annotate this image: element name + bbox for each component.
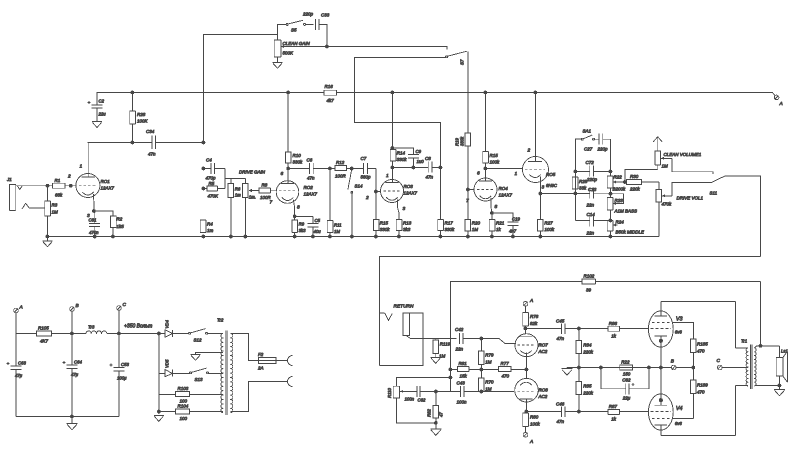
resistor R13 3k3 — [396, 220, 402, 231]
wire drive channel to S7 lower — [355, 58, 446, 168]
ground (R119) — [435, 354, 437, 358]
svg-text:220k: 220k — [582, 391, 594, 396]
resistor R103 100 — [159, 394, 176, 396]
capacitor C14 22n — [576, 220, 590, 222]
jack RETURN frame — [380, 313, 424, 366]
svg-text:C53: C53 — [121, 362, 129, 367]
resistor R20 1M — [467, 190, 469, 220]
capacitor C53 100u — [118, 334, 120, 368]
svg-text:22n: 22n — [455, 347, 464, 352]
mains pin 2 — [288, 377, 293, 387]
node dot rectifier — [157, 332, 160, 335]
wire C42 to RO7 grid — [463, 339, 516, 344]
svg-text:R9: R9 — [299, 222, 305, 227]
svg-text:47n: 47n — [557, 336, 565, 341]
svg-text:2: 2 — [527, 148, 531, 154]
node dots ground rail stage1 — [93, 235, 96, 238]
wire C34 node up to clean gain — [204, 35, 278, 143]
transformer Tr1 primary — [735, 347, 748, 349]
svg-text:R16: R16 — [325, 84, 334, 89]
svg-text:100k: 100k — [530, 422, 541, 427]
svg-text:330k: 330k — [397, 157, 408, 162]
tube RO2 12AX7 — [276, 181, 299, 204]
svg-text:220p: 220p — [586, 177, 598, 182]
svg-text:C46: C46 — [556, 402, 565, 407]
svg-text:4k7: 4k7 — [327, 98, 335, 103]
capacitor C33 220p — [314, 19, 316, 30]
svg-text:100R: 100R — [335, 174, 347, 179]
switch S5 — [278, 24, 286, 34]
svg-text:R30: R30 — [630, 174, 639, 179]
svg-text:V3: V3 — [676, 317, 683, 323]
svg-text:7: 7 — [270, 200, 273, 206]
tail line dots — [449, 368, 452, 371]
resistor R16 (rail series) — [324, 90, 337, 95]
svg-text:330k: 330k — [380, 227, 391, 232]
svg-text:AC2: AC2 — [538, 394, 548, 399]
svg-text:100k: 100k — [490, 160, 501, 165]
svg-text:B: B — [671, 359, 675, 365]
tube RO4 12AX7 — [474, 178, 497, 201]
svg-text:A1M BASS: A1M BASS — [614, 209, 638, 214]
svg-text:VD5: VD5 — [165, 359, 170, 368]
svg-text:1k: 1k — [611, 334, 617, 339]
svg-text:R20: R20 — [472, 221, 481, 226]
pot CLEAN VOLUME1 1M — [655, 151, 661, 165]
wire S11 out — [725, 176, 761, 257]
svg-text:Tr2: Tr2 — [217, 318, 224, 323]
svg-text:R119: R119 — [440, 342, 451, 347]
svg-text:220p: 220p — [302, 12, 314, 17]
node dot C8 out — [439, 166, 442, 169]
resistor R21 1k — [491, 212, 494, 215]
svg-text:R84: R84 — [583, 343, 592, 348]
svg-text:22n: 22n — [586, 203, 595, 208]
svg-text:1m.: 1m. — [249, 195, 256, 200]
svg-text:S11: S11 — [710, 191, 718, 196]
svg-text:560p: 560p — [361, 175, 372, 180]
wire drive wiper to S11 — [665, 183, 711, 196]
svg-text:R12: R12 — [336, 160, 345, 165]
svg-text:12AX7: 12AX7 — [499, 193, 513, 198]
svg-text:3: 3 — [542, 185, 545, 191]
svg-text:6: 6 — [281, 171, 284, 177]
ground (cathode bus) — [566, 367, 568, 370]
resistor R28 — [132, 93, 134, 112]
svg-text:R24: R24 — [616, 220, 625, 225]
capacitor C43 100n — [451, 391, 461, 393]
svg-text:2: 2 — [365, 195, 369, 201]
svg-text:100k: 100k — [544, 227, 555, 232]
svg-text:150: 150 — [623, 372, 631, 377]
svg-text:22u: 22u — [98, 112, 107, 117]
svg-text:C5: C5 — [315, 218, 321, 223]
switch S7 — [446, 56, 448, 58]
pot DRIVE VOL1 470k — [656, 190, 662, 203]
svg-text:C: C — [123, 302, 127, 308]
svg-text:RO8: RO8 — [539, 388, 549, 393]
node dot RO8 plate — [525, 410, 528, 413]
svg-text:R14: R14 — [397, 151, 406, 156]
resistor R80 100k — [525, 412, 527, 413]
svg-text:4K7: 4K7 — [40, 339, 49, 344]
resistor R15 330k — [374, 190, 377, 193]
switch S13 — [190, 372, 192, 374]
svg-text:6v6: 6v6 — [675, 421, 683, 426]
svg-text:100μ: 100μ — [117, 376, 127, 381]
capacitor C5 40u — [312, 216, 314, 223]
wire V4 screen — [672, 418, 693, 420]
svg-text:47n: 47n — [426, 175, 434, 180]
capacitor C63 47u — [15, 334, 17, 366]
svg-text:470: 470 — [697, 349, 705, 354]
pot R110 presence — [393, 386, 399, 398]
node dot R28/plate line — [131, 141, 134, 144]
svg-text:12AX7: 12AX7 — [304, 192, 318, 197]
wire C7 to RO3 grid — [368, 169, 381, 192]
svg-text:R23: R23 — [615, 198, 624, 203]
svg-text:12AX7: 12AX7 — [404, 191, 418, 196]
node dot rail/R15b — [484, 91, 487, 94]
svg-text:C81: C81 — [89, 218, 97, 223]
svg-text:C2: C2 — [99, 99, 105, 104]
node dot rail/R14 — [391, 91, 394, 94]
svg-text:8: 8 — [297, 205, 300, 211]
svg-text:R78: R78 — [530, 314, 539, 319]
pot CLEAN GAIN 500K — [274, 40, 281, 57]
svg-text:DRIVE GAIN: DRIVE GAIN — [239, 170, 266, 175]
choke Tr3 — [86, 331, 107, 334]
svg-text:12AX7: 12AX7 — [101, 186, 115, 191]
svg-text:DRIVE VOL1: DRIVE VOL1 — [677, 196, 704, 201]
svg-text:220k: 220k — [629, 187, 641, 192]
node dot RO7 plate — [524, 327, 527, 330]
wire V3 screen to R185 — [672, 322, 693, 339]
svg-text:RO4: RO4 — [499, 186, 509, 191]
resistor R104 100 — [159, 411, 176, 413]
svg-text:R3: R3 — [52, 203, 58, 208]
svg-text:22n: 22n — [586, 231, 595, 236]
svg-text:C64: C64 — [74, 360, 82, 365]
svg-text:AC2: AC2 — [538, 349, 548, 354]
svg-text:S14: S14 — [355, 184, 364, 189]
svg-text:C13: C13 — [588, 187, 597, 192]
svg-text:6: 6 — [477, 171, 480, 177]
svg-text:R6: R6 — [235, 187, 241, 192]
svg-text:470: 470 — [502, 374, 510, 379]
pot DRIVE GAIN 1M — [244, 179, 246, 184]
svg-text:C19: C19 — [512, 217, 520, 222]
svg-text:B: B — [76, 303, 80, 309]
svg-text:R25: R25 — [579, 179, 588, 184]
svg-text:1m: 1m — [235, 193, 241, 198]
wire S11 return line — [380, 257, 761, 366]
switch SA1 — [581, 138, 583, 140]
capacitor C34 — [151, 136, 153, 150]
wire R8 to RO2 grid — [270, 190, 276, 192]
svg-text:1: 1 — [386, 173, 389, 179]
diode VD4 — [159, 333, 165, 335]
svg-text:B50k MIDDLE: B50k MIDDLE — [616, 230, 646, 235]
tube RO1 12AX7 — [76, 174, 100, 198]
mains pin 1 — [278, 360, 289, 362]
svg-text:330k: 330k — [293, 160, 304, 165]
switch S12 — [189, 332, 191, 334]
wire pot top to tail — [396, 378, 450, 387]
svg-text:15k: 15k — [460, 374, 468, 379]
svg-text:6H9C: 6H9C — [546, 183, 558, 188]
node dot screens — [692, 366, 695, 369]
capacitor C19 4n7 — [492, 213, 513, 222]
resistor R30 220k — [627, 180, 642, 185]
svg-text:2A: 2A — [257, 366, 264, 371]
wire V4 plate to Tr1 — [661, 386, 735, 436]
speaker Ls1 — [779, 346, 781, 358]
transformer Tr2 core — [225, 331, 227, 416]
wire V3 plate to Tr1 — [661, 302, 735, 349]
node dot RO2 plate — [287, 167, 290, 170]
wire RO4 plate to RO5 grid — [486, 168, 523, 170]
svg-text:3: 3 — [403, 206, 406, 212]
svg-text:470p: 470p — [206, 176, 217, 181]
resistor R12 100R — [335, 166, 347, 171]
svg-text:330k: 330k — [445, 227, 456, 232]
svg-text:A: A — [529, 439, 533, 445]
svg-text:100R: 100R — [260, 195, 272, 200]
capacitor C6 47n — [288, 168, 310, 170]
capacitor C7 560p — [362, 163, 364, 174]
svg-text:Tr1: Tr1 — [741, 339, 748, 344]
resistor R17 330k — [440, 168, 442, 220]
svg-text:1k: 1k — [496, 227, 502, 232]
svg-text:C62: C62 — [622, 378, 631, 383]
svg-text:R80: R80 — [530, 415, 539, 420]
wire secondary top to fuse — [231, 334, 259, 361]
svg-text:C8: C8 — [425, 156, 431, 161]
fuse F2 2A — [259, 358, 277, 364]
svg-text:F2: F2 — [258, 352, 264, 357]
resistor R27 100k — [539, 194, 541, 220]
node dot cathode RO1 — [93, 210, 96, 213]
capacitor C4 470p — [204, 168, 211, 170]
svg-text:3k3: 3k3 — [403, 227, 411, 232]
node dot C14/R24 — [609, 219, 612, 222]
tube RO5 — [535, 93, 537, 162]
svg-text:220k: 220k — [582, 350, 594, 355]
switch S14 — [348, 170, 352, 190]
svg-text:C6: C6 — [307, 158, 313, 163]
resistor R105 4K7 — [37, 331, 52, 336]
svg-text:R86: R86 — [609, 321, 618, 326]
ground (input) — [43, 240, 53, 242]
svg-text:47n: 47n — [148, 152, 156, 157]
resistor R87 1k — [579, 411, 608, 413]
node dots rail2 — [202, 235, 205, 238]
svg-text:1M: 1M — [472, 227, 479, 232]
wire secondary top / feedback node — [754, 346, 779, 348]
svg-text:C42: C42 — [455, 327, 464, 332]
svg-text:R79: R79 — [485, 353, 494, 358]
svg-text:1M: 1M — [485, 387, 492, 392]
resistor R102 — [582, 279, 595, 284]
resistor R3 — [47, 186, 49, 201]
wiper arrow drive gain — [249, 190, 259, 192]
wire secondary bottom — [754, 385, 779, 387]
pot R23 A1M BASS — [607, 198, 613, 211]
svg-text:47μ: 47μ — [71, 372, 79, 377]
terminal A (R78) — [523, 302, 528, 307]
capacitor C81 — [94, 211, 96, 223]
svg-text:C: C — [717, 358, 721, 364]
resistor R15 100k (RO4 plate) — [485, 93, 487, 152]
terminal A (psu) — [14, 308, 19, 313]
svg-text:7: 7 — [466, 198, 469, 204]
resistor R5 470k — [204, 188, 208, 190]
svg-text:330k: 330k — [460, 136, 465, 146]
svg-text:1M: 1M — [334, 229, 340, 234]
svg-text:3k3: 3k3 — [299, 228, 307, 233]
wire feedback down from S11 line — [760, 282, 762, 346]
node dot PI tail — [525, 368, 528, 371]
resistor R185 470 — [691, 339, 697, 353]
svg-text:R104: R104 — [178, 404, 189, 409]
resistor R9 3k3 — [294, 216, 296, 220]
capacitor C13 22n — [576, 193, 590, 195]
svg-text:C63: C63 — [18, 361, 26, 366]
psu rail A-B — [16, 313, 37, 334]
svg-text:40u: 40u — [314, 229, 322, 234]
svg-text:R5: R5 — [209, 181, 215, 186]
resistor R84 220k — [578, 329, 580, 341]
ground (speaker) — [779, 386, 781, 390]
svg-text:C7: C7 — [361, 156, 367, 161]
resistor R8 100R — [259, 188, 270, 193]
terminal A (preamp supply) — [774, 95, 779, 100]
terminal B (psu) — [70, 307, 75, 312]
node dot R85 bottom — [578, 410, 581, 413]
node dot RO4 grid — [466, 188, 469, 191]
svg-text:CLEAN VOLUME1: CLEAN VOLUME1 — [664, 152, 702, 157]
node dot R3 top — [46, 184, 49, 187]
tone stack input vertical — [576, 139, 582, 221]
wire drive pot bottom to ground rail — [611, 202, 659, 237]
capacitor C62 22u (cathode) — [601, 368, 626, 389]
resistor R81 15k — [451, 369, 458, 371]
resistor R2 — [94, 211, 113, 216]
svg-text:Tr3: Tr3 — [88, 325, 95, 330]
capacitor C9 1u0 — [393, 148, 414, 154]
capacitor C64 47u — [71, 334, 73, 365]
svg-text:R17: R17 — [445, 221, 454, 226]
svg-text:R1: R1 — [55, 178, 61, 183]
svg-text:1m: 1m — [207, 228, 214, 233]
svg-text:47: 47 — [439, 412, 444, 417]
svg-text:R185: R185 — [697, 342, 708, 347]
wire R1 to grid — [65, 185, 76, 187]
svg-text:R8: R8 — [262, 183, 268, 188]
svg-text:RO2: RO2 — [304, 185, 314, 190]
node dot rail/R10 — [287, 91, 290, 94]
node dot RO5 cathode — [539, 192, 542, 195]
svg-text:47n: 47n — [557, 419, 565, 424]
svg-text:C4: C4 — [206, 158, 212, 163]
svg-text:S12: S12 — [194, 338, 203, 343]
tube V4 6V6 — [648, 394, 673, 430]
svg-text:1: 1 — [515, 171, 518, 177]
resistor R82 — [435, 392, 437, 406]
transformer Tr1 core — [749, 345, 751, 390]
tube V3 6V6 — [648, 311, 673, 347]
resistor R22 150 — [620, 365, 633, 370]
ground rail (preamp) — [48, 236, 613, 238]
resistor R79 1M — [480, 339, 482, 352]
svg-text:R15: R15 — [490, 153, 499, 158]
resistor R78 82k — [525, 306, 527, 312]
wire R30 to drive pot — [641, 182, 658, 190]
resistor R6 1M — [230, 179, 232, 184]
transformer Tr2 secondary winding — [231, 334, 233, 413]
svg-text:R22: R22 — [621, 360, 630, 365]
node dot C9 top — [391, 147, 394, 150]
svg-text:R28: R28 — [137, 112, 146, 117]
svg-text:C33: C33 — [321, 13, 330, 18]
feedback line corner — [595, 281, 760, 283]
wire plate line stage1 — [88, 142, 153, 144]
svg-text:R105: R105 — [38, 326, 49, 331]
svg-text:R85: R85 — [583, 384, 592, 389]
svg-text:1M: 1M — [485, 360, 492, 365]
svg-text:100n: 100n — [405, 397, 415, 402]
svg-text:S7: S7 — [460, 59, 465, 65]
wire wiper to clean pot — [625, 165, 658, 182]
node dot R11 top — [329, 167, 332, 170]
B+ rail A (left segment) — [97, 93, 324, 105]
B+ rail A (right segment) — [337, 93, 776, 96]
svg-text:SA1: SA1 — [583, 129, 592, 134]
svg-text:Ls1: Ls1 — [781, 349, 789, 354]
svg-text:1k5: 1k5 — [117, 224, 125, 229]
resistor R1 — [53, 183, 66, 188]
svg-text:R77: R77 — [501, 361, 510, 366]
svg-text:R13: R13 — [403, 221, 412, 226]
svg-text:470K: 470K — [208, 194, 220, 199]
node dot R22 wiper — [616, 181, 627, 183]
svg-text:R110: R110 — [387, 387, 392, 398]
svg-text:1: 1 — [80, 164, 83, 170]
svg-text:R11: R11 — [334, 223, 342, 228]
terminal C (psu) — [117, 306, 122, 311]
node dots RO3 plate — [391, 166, 394, 169]
node dot grid — [69, 184, 72, 187]
svg-text:C72: C72 — [586, 160, 595, 165]
svg-text:220p: 220p — [597, 147, 609, 152]
svg-text:47n: 47n — [307, 176, 315, 181]
capacitor C2 — [96, 103, 98, 106]
ground (transformer CT) — [196, 352, 224, 354]
node dot R84 top — [578, 327, 581, 330]
svg-text:1M: 1M — [662, 164, 669, 169]
pot R24 B50k MIDDLE — [607, 221, 613, 232]
capacitor C46 47n — [526, 411, 562, 413]
terminal C (screens supply) — [718, 365, 723, 370]
svg-text:1M: 1M — [439, 354, 446, 359]
svg-text:R21: R21 — [496, 221, 505, 226]
svg-text:R87: R87 — [609, 404, 618, 409]
capacitor C45 47n — [526, 328, 562, 330]
resistor R4 1M — [200, 220, 206, 233]
node dot R5 line — [202, 187, 205, 190]
ground (R82) — [430, 428, 441, 430]
